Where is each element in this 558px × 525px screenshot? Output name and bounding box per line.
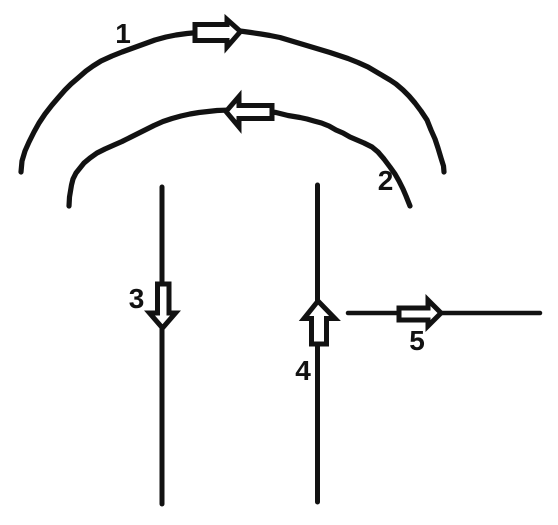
line 3 (left vertical line)	[160, 187, 165, 504]
svg-text:1: 1	[115, 18, 131, 49]
arc 2 (inner curve)	[69, 110, 410, 207]
arrow 2 (leftward hollow arrow on arc 2)	[226, 97, 272, 128]
arrow 5 (rightward hollow arrow on line 5)	[399, 300, 441, 326]
arrow 3 (downward hollow arrow on line 3)	[150, 284, 176, 328]
svg-text:5: 5	[409, 325, 425, 356]
svg-text:3: 3	[129, 283, 145, 314]
svg-text:4: 4	[295, 355, 311, 386]
line 4 (right vertical line)	[315, 185, 320, 502]
arrow 4 (upward hollow arrow on line 4)	[304, 301, 335, 344]
line 5 (horizontal line)	[348, 311, 540, 316]
arrow 1 (rightward hollow arrow on arc 1)	[195, 20, 241, 48]
svg-text:2: 2	[378, 165, 394, 196]
arc 1 (outer curve)	[21, 31, 444, 172]
